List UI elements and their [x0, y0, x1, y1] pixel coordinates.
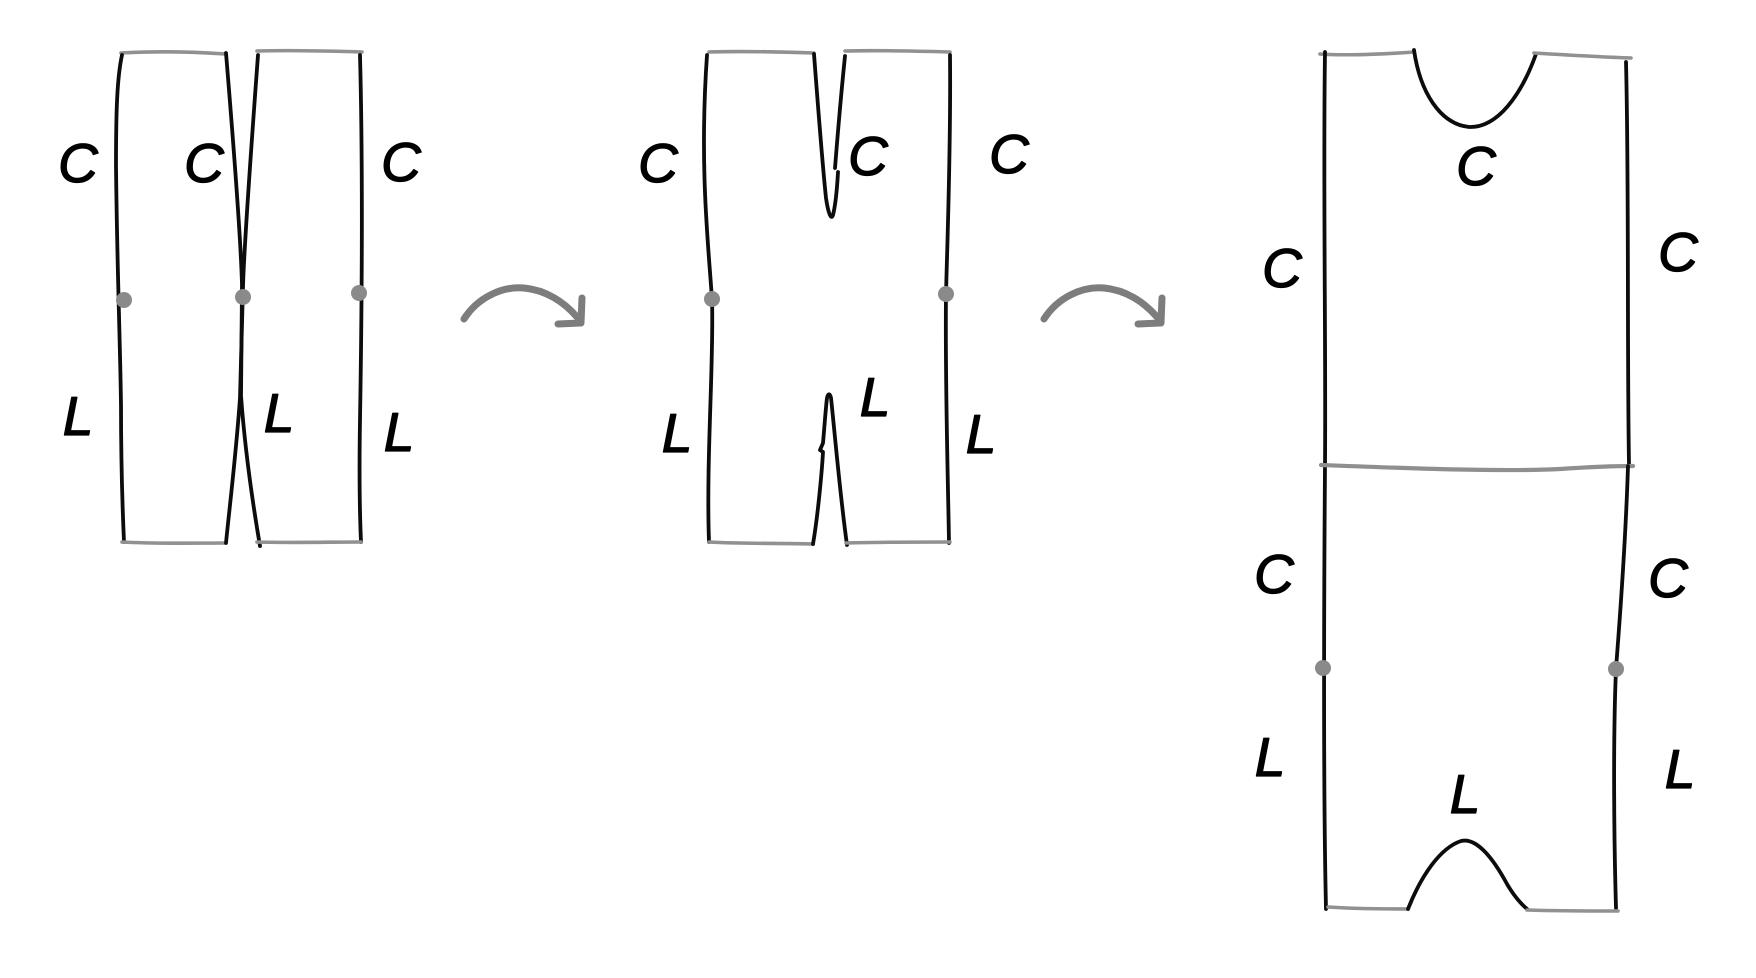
panel 1 strip 2 top edge (gray)	[257, 51, 362, 52]
svg-text:C: C	[58, 132, 99, 194]
panel 3 top notch (neck curve)	[1414, 50, 1536, 127]
svg-text:C: C	[184, 132, 225, 194]
arrow 1 head vertical barb	[581, 298, 582, 323]
svg-text:C: C	[638, 132, 679, 194]
panel 2 bottom-left edge (gray)	[709, 542, 813, 544]
arrow 1 head horizontal barb	[558, 323, 580, 324]
panel 1 marked point center	[235, 289, 251, 305]
arrow 2 arc	[1044, 288, 1157, 319]
panel 1 strip 2 bottom edge (gray)	[257, 540, 361, 544]
arrow 2 head vertical barb	[1161, 298, 1162, 323]
svg-text:C: C	[1262, 237, 1303, 299]
panel 2 top notch left branch	[814, 54, 838, 217]
svg-text:L: L	[264, 382, 295, 444]
panel 2 strip top-right edge (gray)	[845, 51, 950, 52]
arrow 1 arc	[464, 288, 577, 319]
panel 3 marked point right	[1608, 661, 1624, 677]
panel 2 marked point right	[938, 286, 954, 302]
panel 3 marked point left	[1315, 660, 1331, 676]
panel 1 strip 1 left edge	[116, 55, 124, 542]
panel 1 strip 2 inner edge (crossing stroke B)	[226, 55, 258, 543]
panel 3 middle divider (gray)	[1321, 465, 1633, 470]
svg-text:L: L	[384, 401, 415, 463]
svg-text:L: L	[860, 366, 891, 428]
svg-text:L: L	[662, 402, 693, 464]
svg-text:C: C	[848, 125, 889, 187]
panel 3 bottom-left edge (gray)	[1328, 907, 1408, 909]
panel 3 top-left edge (gray)	[1320, 52, 1414, 55]
svg-text:C: C	[1456, 135, 1497, 197]
svg-text:C: C	[1658, 221, 1699, 283]
panel 2 top notch right branch	[835, 56, 845, 168]
panel 1 marked point left	[116, 292, 132, 308]
svg-text:L: L	[966, 403, 997, 465]
panel 2 strip top-left edge (gray)	[709, 52, 814, 53]
panel 2 left edge	[704, 55, 712, 542]
svg-text:L: L	[1450, 763, 1481, 825]
svg-text:C: C	[1254, 543, 1295, 605]
panel 3 right edge upper	[1626, 62, 1629, 465]
panel 1 strip 2 right edge	[360, 55, 362, 542]
panel 2 bottom notch	[813, 394, 847, 545]
panel 3 bottom bump	[1408, 841, 1527, 909]
arrow 2 head horizontal barb	[1138, 323, 1160, 324]
panel 1 marked point right	[351, 285, 367, 301]
panel 1 strip 1 top edge (gray)	[121, 52, 226, 54]
panel 2 marked point left	[704, 291, 720, 307]
panel 1 strip 1 bottom edge (gray)	[122, 542, 226, 543]
panel 2 right edge	[946, 55, 950, 543]
panel 2 bottom-right edge (gray)	[846, 542, 950, 543]
svg-text:L: L	[63, 385, 94, 447]
panel 3 left edge	[1324, 52, 1326, 909]
svg-text:C: C	[1648, 547, 1689, 609]
panel 3 top-right edge (gray)	[1534, 53, 1631, 58]
svg-text:L: L	[1665, 738, 1696, 800]
panel 3 right edge lower	[1614, 466, 1628, 908]
panel 3 bottom-right edge (gray)	[1527, 910, 1618, 911]
svg-text:L: L	[1255, 726, 1286, 788]
svg-text:C: C	[381, 131, 422, 193]
panel 1 strip 1 inner edge (crossing stroke A)	[226, 53, 260, 546]
svg-text:C: C	[989, 123, 1030, 185]
